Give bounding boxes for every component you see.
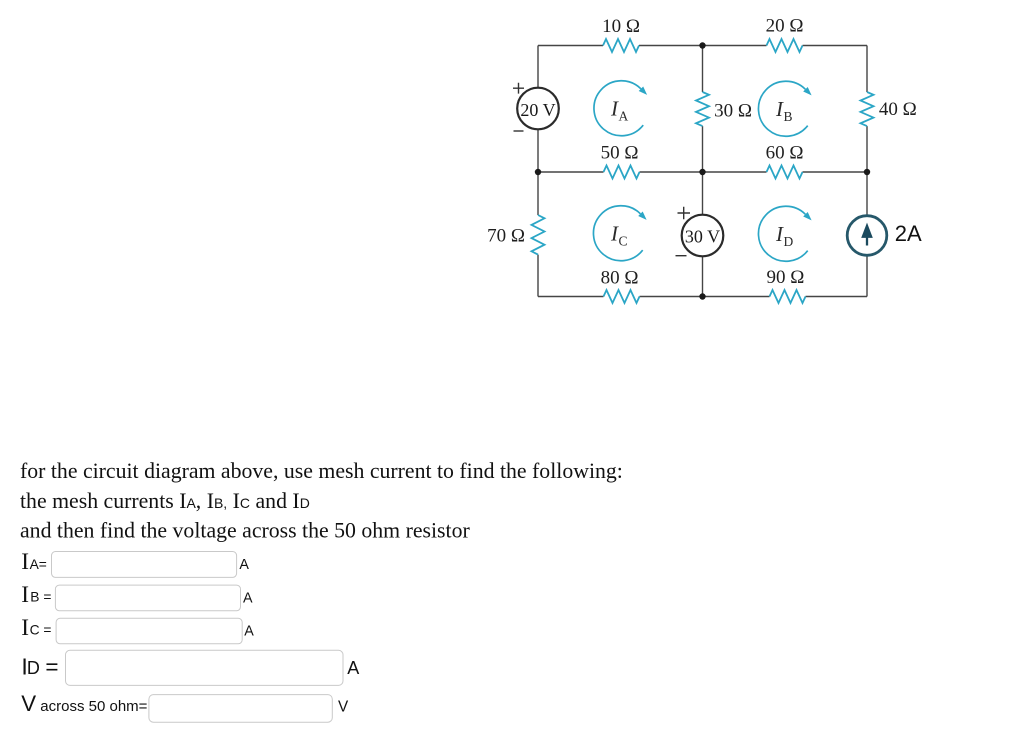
svg-text:C: C xyxy=(619,234,628,249)
svg-text:2A: 2A xyxy=(895,221,922,246)
svg-text:V: V xyxy=(21,691,36,716)
svg-text:30 V: 30 V xyxy=(685,227,720,247)
svg-text:50 Ω: 50 Ω xyxy=(601,143,639,164)
svg-text:A: A xyxy=(243,590,253,606)
svg-text:A=: A= xyxy=(30,557,47,572)
svg-text:A: A xyxy=(244,623,254,639)
svg-text:A: A xyxy=(347,658,359,678)
svg-text:V: V xyxy=(338,699,349,716)
svg-text:and then find the voltage acro: and then find the voltage across the 50 … xyxy=(20,519,470,543)
svg-text:I: I xyxy=(21,549,29,575)
svg-text:30 Ω: 30 Ω xyxy=(714,101,752,122)
svg-text:=: = xyxy=(45,654,58,679)
svg-text:90 Ω: 90 Ω xyxy=(766,267,804,288)
svg-text:I: I xyxy=(21,615,29,641)
svg-text:B: B xyxy=(784,109,793,124)
svg-text:the mesh currents IA, IB, IC a: the mesh currents IA, IB, IC and ID xyxy=(20,489,310,513)
svg-text:D: D xyxy=(784,234,794,249)
svg-text:I: I xyxy=(21,582,29,608)
svg-text:across 50 ohm=: across 50 ohm= xyxy=(40,698,147,715)
svg-text:10 Ω: 10 Ω xyxy=(602,16,640,37)
svg-text:70 Ω: 70 Ω xyxy=(487,226,525,247)
svg-text:20 V: 20 V xyxy=(520,100,555,120)
svg-text:for the circuit diagram above,: for the circuit diagram above, use mesh … xyxy=(20,459,623,483)
svg-text:A: A xyxy=(239,557,249,573)
svg-text:D: D xyxy=(27,658,40,678)
svg-text:40 Ω: 40 Ω xyxy=(879,99,917,120)
svg-text:C =: C = xyxy=(30,623,52,638)
svg-text:20 Ω: 20 Ω xyxy=(766,16,804,37)
svg-text:B =: B = xyxy=(30,590,51,605)
svg-text:A: A xyxy=(619,109,629,124)
svg-text:80 Ω: 80 Ω xyxy=(601,268,639,289)
svg-text:60 Ω: 60 Ω xyxy=(766,143,804,164)
